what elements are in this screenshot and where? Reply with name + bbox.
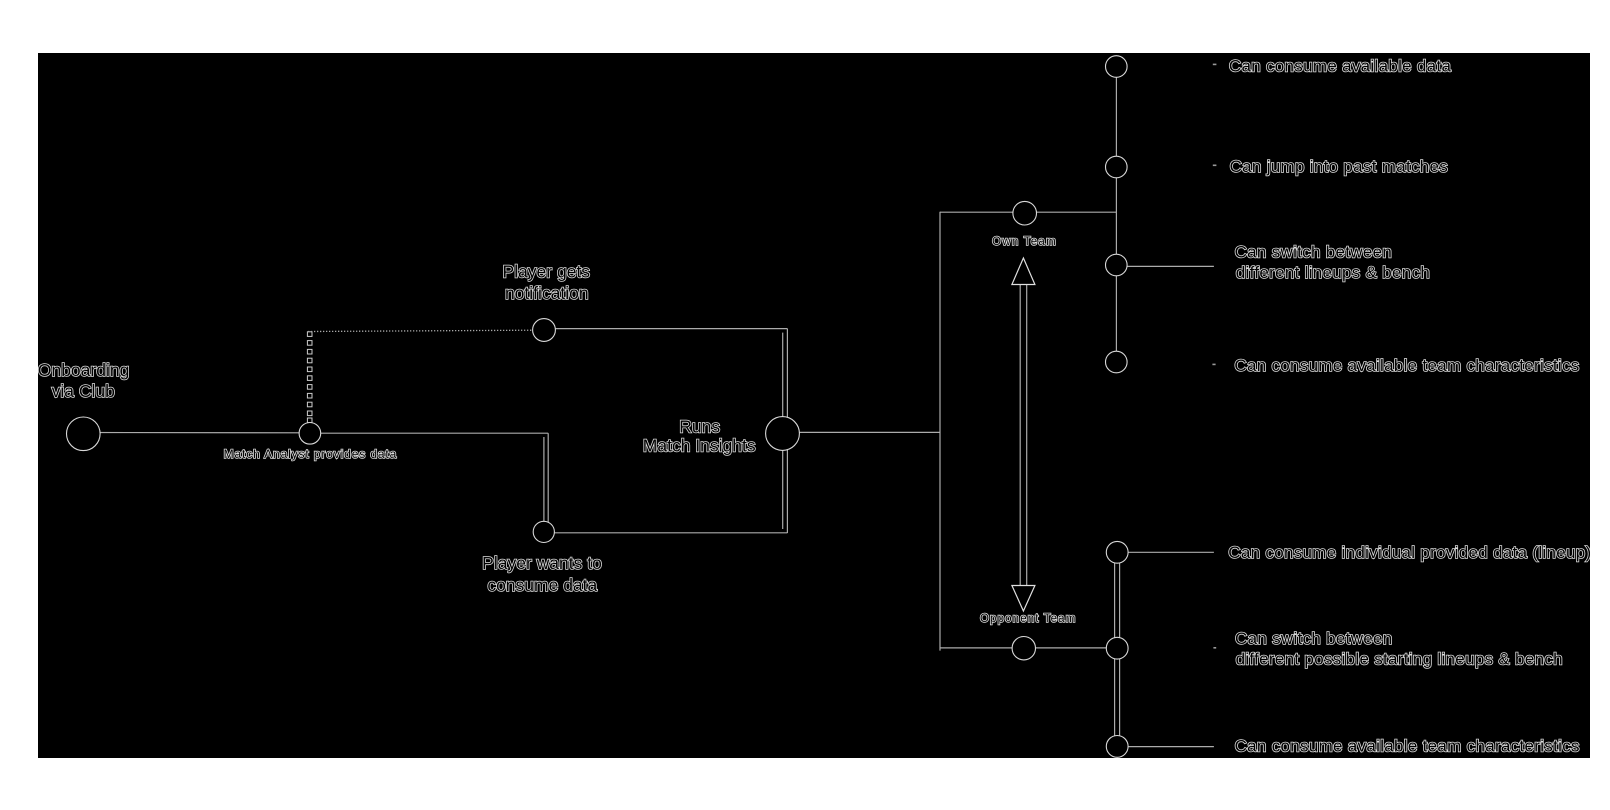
svg-text:via Club: via Club — [52, 381, 115, 401]
svg-text:notification: notification — [505, 283, 589, 303]
dash before T1 — [1213, 63, 1217, 65]
svg-text:Player wants to: Player wants to — [482, 553, 602, 573]
Opponent Team circle — [1012, 637, 1035, 660]
wire B to double-line corner (horizontal) — [310, 432, 548, 434]
svg-text:Match Analyst provides data: Match Analyst provides data — [224, 447, 398, 461]
Opponent chain double vertical (left line) — [1114, 552, 1116, 746]
svg-text:Can consume available team cha: Can consume available team characteristi… — [1235, 737, 1580, 756]
Opponent chain double vertical (right line) — [1119, 552, 1121, 746]
wire A to B (Onboarding to Match Analyst node) — [84, 432, 310, 434]
node B circle (Match Analyst provides data) — [299, 423, 321, 445]
arrowhead top — [1012, 258, 1035, 285]
node C circle (Player gets notification) — [533, 319, 556, 342]
svg-text:different lineups & bench: different lineups & bench — [1236, 263, 1430, 282]
svg-text:different possible starting li: different possible starting lineups & be… — [1236, 650, 1563, 669]
dash before T4 — [1212, 363, 1215, 365]
dotted horizontal wire from B-corner to C — [308, 330, 533, 331]
double vertical wire corner down to E (left line) — [782, 333, 784, 420]
svg-text:Can jump into past matches: Can jump into past matches — [1230, 157, 1449, 176]
chain node 5 — [1106, 541, 1128, 563]
Own-Team chain vertical — [1115, 67, 1117, 363]
svg-text:Runs: Runs — [679, 417, 720, 437]
svg-text:Can consume available data: Can consume available data — [1229, 56, 1452, 75]
chain node 1 — [1106, 56, 1128, 78]
svg-text:Opponent Team: Opponent Team — [980, 613, 1076, 625]
dash before T2 — [1213, 164, 1217, 166]
chain node 4 — [1106, 351, 1128, 373]
Own Team circle — [1013, 201, 1037, 225]
svg-text:Match Insights: Match Insights — [643, 435, 756, 455]
double vertical wire B-corner down to D (right line) — [547, 433, 549, 522]
double vertical wire B-corner down to D (left line) — [543, 437, 545, 522]
wire bracket bottom to Opponent-Team chain — [940, 647, 1117, 649]
svg-text:Own Team: Own Team — [992, 236, 1057, 248]
double vertical wire corner down to E (right line) — [786, 329, 788, 420]
chain node 3 — [1106, 254, 1128, 276]
wire E to fork bracket — [783, 431, 940, 433]
node E circle (Runs Match Insights) — [766, 417, 800, 451]
node A circle (Onboarding via Club) — [67, 417, 101, 451]
dotted vertical wire from B up — [307, 332, 312, 423]
svg-text:Onboarding: Onboarding — [38, 360, 129, 380]
svg-text:Can switch between: Can switch between — [1235, 629, 1393, 648]
svg-text:consume data: consume data — [487, 575, 597, 595]
wire bracket top to Own-Team chain — [940, 211, 1116, 213]
svg-text:Can switch between: Can switch between — [1235, 243, 1393, 262]
arrowhead bottom — [1012, 586, 1035, 612]
double vertical wire E down to corner (left line) — [782, 447, 784, 529]
long wire node5 to text T5 — [1128, 551, 1214, 553]
chain node 6 — [1106, 637, 1128, 659]
long wire node7 to text T7 — [1128, 746, 1214, 748]
fork bracket vertical — [939, 212, 941, 651]
chain node 7 — [1106, 736, 1128, 758]
wire C to right corner (horizontal) — [555, 328, 787, 330]
node D circle (Player wants to consume data) — [533, 521, 554, 542]
double-headed arrow shaft (left line) — [1019, 282, 1021, 588]
svg-text:Can consume available team cha: Can consume available team characteristi… — [1234, 356, 1579, 375]
dash before T6 — [1213, 647, 1216, 649]
double vertical wire E down to corner (right line) — [786, 447, 788, 533]
wire D to corner (horizontal) — [544, 532, 787, 534]
svg-text:Can consume individual provide: Can consume individual provided data (li… — [1228, 543, 1591, 562]
double-headed arrow shaft (right line) — [1026, 282, 1028, 588]
svg-text:Player gets: Player gets — [503, 262, 591, 282]
chain node 2 — [1106, 156, 1128, 178]
long wire node3 to text T3 — [1127, 265, 1214, 267]
